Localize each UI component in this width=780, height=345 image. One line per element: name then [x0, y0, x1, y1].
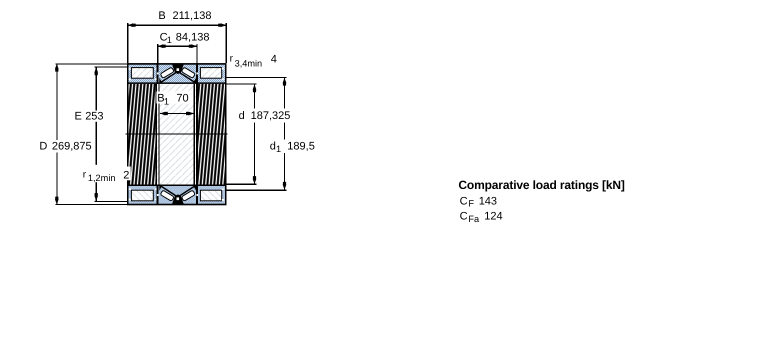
- svg-text:143: 143: [479, 196, 497, 208]
- svg-text:3,4min: 3,4min: [235, 58, 263, 68]
- svg-text:D: D: [39, 140, 47, 152]
- svg-text:1: 1: [276, 144, 281, 154]
- svg-text:253: 253: [85, 111, 103, 123]
- svg-text:269,875: 269,875: [52, 140, 92, 152]
- svg-text:2: 2: [123, 170, 129, 182]
- svg-text:1: 1: [164, 96, 169, 106]
- svg-text:Fa: Fa: [468, 214, 480, 224]
- svg-text:C: C: [460, 196, 468, 208]
- svg-text:Comparative load ratings [kN]: Comparative load ratings [kN]: [458, 178, 625, 192]
- svg-text:d: d: [239, 110, 245, 122]
- svg-text:1: 1: [167, 35, 172, 45]
- svg-text:E: E: [75, 111, 82, 123]
- svg-text:1,2min: 1,2min: [88, 173, 116, 183]
- svg-text:211,138: 211,138: [173, 10, 212, 22]
- svg-text:189,5: 189,5: [287, 141, 315, 153]
- svg-text:124: 124: [484, 211, 502, 223]
- svg-text:B: B: [158, 10, 165, 22]
- svg-text:d: d: [270, 141, 276, 153]
- svg-text:84,138: 84,138: [176, 31, 210, 43]
- svg-text:4: 4: [271, 54, 277, 66]
- svg-text:F: F: [468, 199, 474, 209]
- svg-text:187,325: 187,325: [251, 110, 291, 122]
- svg-text:C: C: [460, 211, 468, 223]
- svg-text:r: r: [230, 53, 234, 64]
- svg-text:70: 70: [176, 93, 188, 105]
